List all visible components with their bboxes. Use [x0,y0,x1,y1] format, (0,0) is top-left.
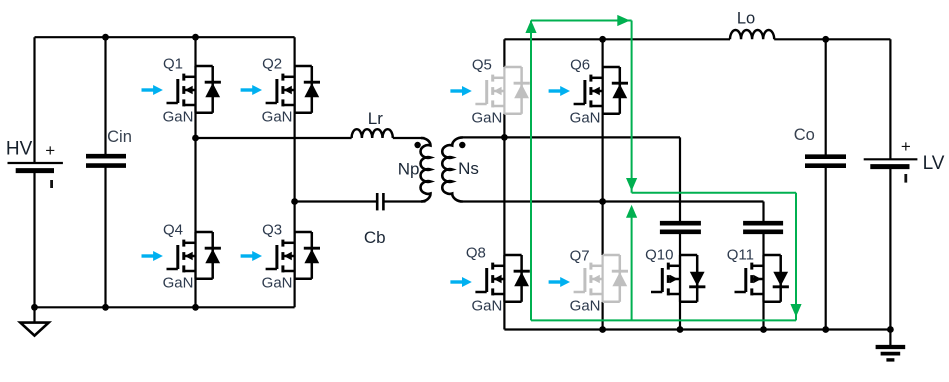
gate drive arrow Q5 [450,86,471,96]
svg-text:GaN: GaN [471,297,502,314]
svg-text:GaN: GaN [570,109,601,126]
gate drive arrow Q6 [549,86,570,96]
node Q11 source [760,326,767,333]
gate drive arrow Q7 [549,277,570,287]
current path segment (middle horizontal) [632,192,796,194]
wire LV battery positive lead [889,39,891,159]
current path arrowhead right [617,15,630,26]
svg-text:Cin: Cin [107,128,132,146]
node Co bottom [822,326,829,333]
wire Q5 drain stub [503,39,505,67]
wire node B to Cb [295,200,376,202]
wire ground stem (secondary) [889,330,891,348]
svg-text:Cb: Cb [364,228,386,247]
svg-text:Q6: Q6 [570,57,590,74]
wire Ns bottom terminal rail [463,200,764,202]
svg-text:GaN: GaN [262,274,293,291]
wire HV battery positive lead [33,37,35,163]
transformer primary winding Np [421,138,431,202]
gate drive arrow Q1 [142,85,163,95]
gate drive arrow Q3 [241,251,262,261]
svg-text:GaN: GaN [262,108,293,125]
transformer primary dot [414,142,420,148]
capacitor at Q11 drain [743,223,783,232]
svg-text:Q11: Q11 [727,247,754,264]
svg-text:Lo: Lo [737,9,755,27]
battery HV source [8,141,63,188]
node LV negative [887,326,894,333]
wire HV battery negative lead [33,171,35,308]
inductor Lr [352,129,393,138]
gate drive arrow Q2 [241,85,262,95]
current path arrowhead down (to node) [626,178,637,191]
svg-text:Ns: Ns [458,159,479,178]
wire ground stem (primary) [33,307,35,322]
wire Q10 upper lead [679,137,681,223]
svg-text:HV: HV [6,139,33,160]
svg-text:Q2: Q2 [262,56,282,73]
svg-text:GaN: GaN [163,108,194,125]
svg-text:GaN: GaN [471,109,502,126]
svg-text:GaN: GaN [163,274,194,291]
current path arrowhead up (into node) [626,205,637,218]
current path segment (top horizontal) [531,20,632,22]
wire top rail LV side [504,38,730,40]
node Q6 source [599,198,606,205]
node Q10 source [677,326,684,333]
wire node A to Lr [196,137,352,139]
transistor Q8 [466,245,530,315]
current path segment (down, right of Q6) [631,21,633,193]
transistor Q11 [727,247,789,302]
current path segment (bottom return) [531,319,796,321]
svg-text:GaN: GaN [570,297,601,314]
svg-text:Q3: Q3 [262,222,282,239]
svg-text:Q10: Q10 [645,247,673,264]
wire LV battery negative lead [889,167,891,330]
node Q7 source [599,326,606,333]
svg-text:Lr: Lr [368,109,383,128]
transistor Q7 (inactive) [570,248,628,315]
wire Q1-Q4 leg [194,37,196,307]
capacitor Cin [86,156,126,165]
transistor Q1 [163,56,221,126]
wire Q7 source stub [601,302,603,330]
transistor Q3 [262,222,320,292]
gate drive arrow Q4 [142,251,163,261]
svg-text:+: + [901,137,911,156]
current path arrowhead up [525,20,536,33]
transistor Q10 [645,247,705,302]
wire Cb to Np [384,200,425,202]
wire bottom rail LV side [504,328,890,330]
wire top rail HV side [35,36,295,38]
node Cin top [102,34,109,41]
wire Q11 lower leg [762,232,764,330]
node Q1 drain [192,34,199,41]
node A (Q1 source) [192,135,199,142]
battery LV source [864,137,918,182]
node Co top [822,36,829,43]
gate drive arrow Q8 [450,277,471,287]
wire Co top lead [825,39,827,156]
wire Lr to Np [393,137,425,139]
wire Lo to LV rail [774,38,890,40]
current path segment (up, left of Q6) [530,21,532,321]
svg-text:LV: LV [923,153,945,174]
node B (Q2 source) [291,198,298,205]
capacitor Cb [377,193,383,210]
node Q5 source [501,134,508,141]
capacitor at Q10 drain [660,223,701,232]
inductor Lo [730,30,774,39]
wire Cin top lead [104,37,106,156]
svg-text:Q8: Q8 [466,245,486,262]
current path arrowhead down (to return) [790,304,801,317]
capacitor Co [805,157,846,166]
transformer secondary winding Ns [442,137,462,201]
wire Q5 source to Q8 leg [503,114,505,330]
node Cin bottom [102,304,109,311]
svg-text:+: + [45,141,55,160]
transistor Q5 (inactive) [471,57,529,127]
transistor Q6 [570,57,628,127]
node HV negative [31,304,38,311]
transistor Q4 [163,222,221,292]
ground (primary) [20,323,48,336]
wire Ns dot terminal rail [463,136,681,138]
node Q6 drain [599,36,606,43]
svg-text:Q4: Q4 [163,222,183,239]
transistor Q2 [262,56,320,126]
svg-text:Q5: Q5 [472,57,492,74]
wire Q10 lower leg [679,232,681,330]
wire Q2-Q3 leg [294,37,296,307]
transformer secondary dot [459,142,465,148]
wire Q11 upper lead [762,202,764,224]
current path segment (down, right of Q11) [795,193,797,321]
svg-text:Np: Np [398,159,420,178]
svg-text:Q1: Q1 [163,56,183,73]
node Q4 source [192,304,199,311]
current path segment (up, from Q7 branch) [631,210,633,320]
wire bottom rail HV side [35,306,295,308]
svg-text:Q7: Q7 [570,248,590,265]
ground earth (secondary) [876,347,906,360]
wire Cin bottom lead [104,166,106,308]
wire Co bottom lead [825,166,827,330]
svg-text:Co: Co [794,126,815,144]
wire Q6 leg to Q7 drain [601,39,603,255]
